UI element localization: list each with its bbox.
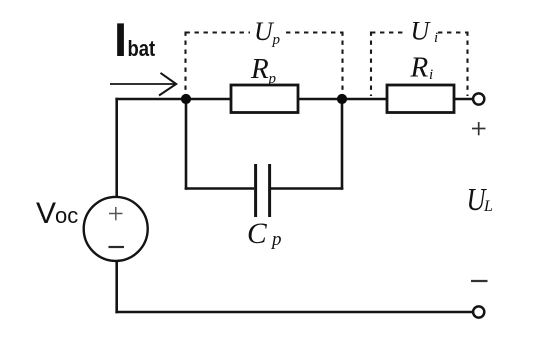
svg-text:bat: bat bbox=[128, 38, 156, 62]
svg-text:p: p bbox=[272, 32, 281, 48]
svg-text:i: i bbox=[434, 30, 438, 46]
svg-text:V: V bbox=[36, 197, 56, 230]
svg-text:C: C bbox=[247, 218, 267, 250]
svg-text:p: p bbox=[268, 71, 277, 87]
svg-text:R: R bbox=[410, 52, 429, 84]
svg-text:U: U bbox=[411, 17, 432, 46]
svg-text:i: i bbox=[429, 67, 433, 83]
svg-text:L: L bbox=[483, 198, 493, 215]
svg-text:p: p bbox=[270, 229, 282, 250]
svg-text:oc: oc bbox=[55, 203, 78, 228]
svg-text:I: I bbox=[114, 13, 127, 66]
svg-text:R: R bbox=[250, 53, 269, 85]
